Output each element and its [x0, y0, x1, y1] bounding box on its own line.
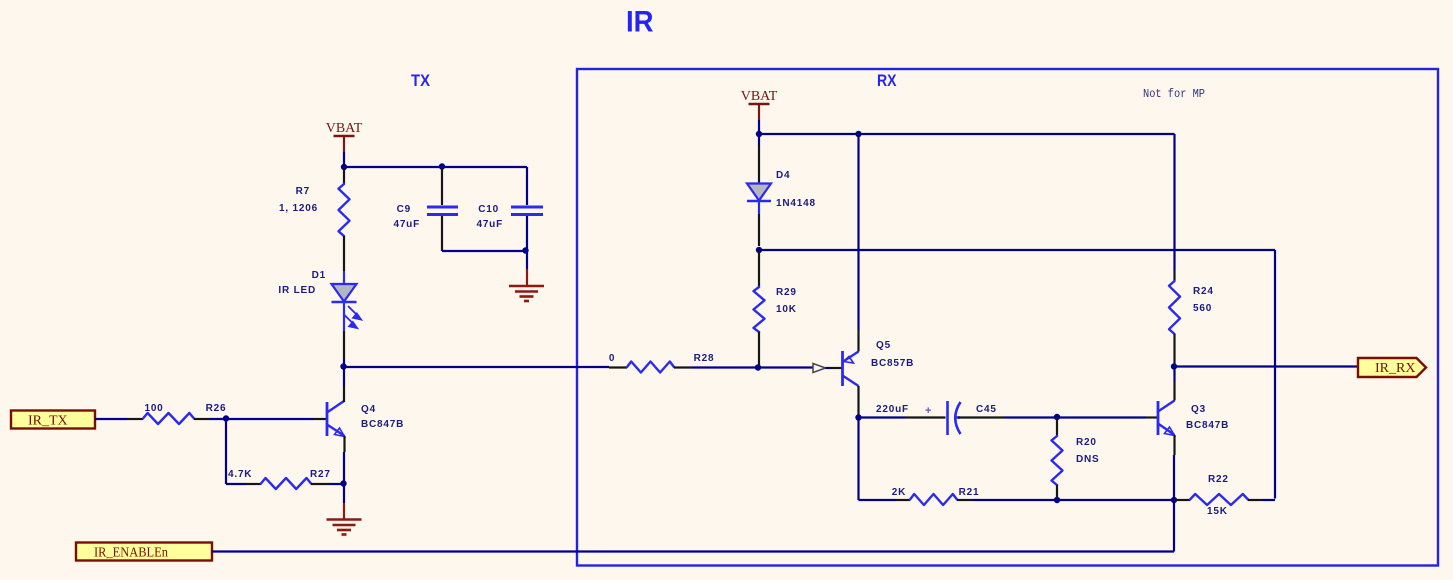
transistor Q5 collector pin [857, 386, 859, 418]
wire rail corner down to R24 [1173, 134, 1175, 270]
transistor Q3 base pin [1146, 416, 1158, 418]
svg-text:47uF: 47uF [393, 219, 420, 230]
resistor R26 left pin [127, 418, 143, 420]
svg-text:C10: C10 [478, 204, 499, 215]
svg-text:15K: 15K [1207, 506, 1228, 517]
svg-text:R21: R21 [959, 487, 980, 498]
transistor Q5 emitter pin [857, 330, 859, 352]
resistor R29 bottom pin [758, 332, 760, 368]
svg-text:+: + [925, 405, 931, 417]
wire R21 to emitter node [973, 499, 1174, 501]
transistor Q3 emitter pin [1173, 435, 1175, 455]
svg-text:10K: 10K [776, 304, 797, 315]
wire Q5 collector node down [857, 418, 859, 501]
resistor R22 [1190, 494, 1248, 505]
port IR_RX [1358, 358, 1426, 377]
transistor Q4 BC847B [327, 401, 345, 437]
junction C9 top [439, 163, 445, 169]
junction node TX_OUT [340, 363, 346, 369]
svg-text:DNS: DNS [1076, 454, 1100, 465]
svg-text:IR_TX: IR_TX [28, 414, 68, 429]
resistor R7 bottom pin [343, 236, 345, 271]
svg-text:D4: D4 [776, 170, 790, 181]
wire TX_OUT to RX [344, 366, 609, 368]
transistor Q4 base pin [313, 418, 327, 420]
resistor R27 [261, 478, 311, 489]
diode D4 1N4148 body [747, 184, 771, 202]
wire R26 to Q4 base [210, 418, 313, 420]
resistor R22 left pin [1174, 499, 1190, 501]
resistor R26 [143, 413, 194, 424]
svg-text:220uF: 220uF [876, 404, 909, 415]
junction node Q4 base / R27 [223, 415, 229, 421]
resistor R27 right pin [311, 483, 330, 485]
junction node VBAT_RX [756, 131, 762, 137]
ground (TX caps) [509, 286, 544, 301]
wire R22 to cathode rail riser [1262, 499, 1275, 501]
wire R28 to R29 node [692, 366, 758, 368]
svg-text:C9: C9 [397, 204, 411, 215]
capacitor C45 left pin [905, 416, 946, 418]
wire VBAT stub to TX rail [343, 152, 345, 167]
resistor R20 top pin [1056, 418, 1058, 437]
wire D1 to collector node [343, 331, 345, 360]
capacitor C9 [427, 207, 458, 215]
svg-text:R22: R22 [1208, 474, 1229, 485]
svg-text:R24: R24 [1193, 286, 1214, 297]
port IR_TX [11, 411, 95, 429]
capacitor C10 bottom pin [526, 216, 528, 251]
wire corner to R21 [859, 499, 897, 501]
svg-text:R7: R7 [296, 186, 310, 197]
svg-text:TX: TX [411, 71, 431, 90]
svg-text:1N4148: 1N4148 [776, 198, 816, 209]
diode D1 emission arrows [344, 306, 361, 328]
capacitor C45 polarized [948, 401, 961, 435]
wire base node down to R27 [225, 419, 227, 484]
junction node Q3 emitter / R22 [1171, 497, 1177, 503]
wire IR_ENABLEn run [212, 550, 1174, 552]
svg-text:R20: R20 [1076, 437, 1097, 448]
wire Q3 emitter down [1173, 455, 1175, 500]
wire node to Q5 base arrow [758, 366, 813, 368]
resistor R7 top pin [343, 167, 345, 184]
diode D1 cathode pin [343, 302, 345, 331]
power symbol VBAT (RX) [741, 89, 778, 120]
resistor R24 [1169, 281, 1180, 334]
svg-text:560: 560 [1193, 303, 1212, 314]
ground (Q4) [327, 520, 362, 535]
wire TX VBAT rail [344, 166, 527, 168]
wire C10 top drop [526, 167, 528, 205]
resistor R29 [754, 287, 765, 332]
diode D4 anode pin [758, 145, 760, 184]
resistor R20 [1052, 436, 1063, 485]
wire cathode rail [759, 249, 1275, 251]
resistor R27 left pin [246, 483, 261, 485]
wire VBAT stub to RX rail [758, 120, 760, 134]
resistor R24 bottom pin [1173, 334, 1175, 367]
junction node R20 top [1054, 414, 1060, 420]
diode D4 cathode pin [758, 201, 760, 214]
capacitor C9 top pin [441, 167, 443, 205]
svg-text:Q5: Q5 [876, 340, 891, 351]
diode D4 anode wire [758, 134, 760, 145]
svg-text:R28: R28 [694, 353, 715, 364]
svg-text:4.7K: 4.7K [228, 469, 252, 480]
svg-text:0: 0 [609, 353, 615, 364]
svg-text:VBAT: VBAT [326, 121, 363, 136]
junction node VBAT_TX at R7 top [341, 164, 347, 170]
svg-text:Not for MP: Not for MP [1143, 88, 1205, 101]
ground stub (Q4) [343, 503, 345, 519]
svg-text:BC847B: BC847B [1186, 420, 1229, 431]
svg-text:R26: R26 [206, 403, 227, 414]
svg-text:R27: R27 [310, 469, 331, 480]
svg-text:Q3: Q3 [1191, 404, 1206, 415]
junction C10 bottom [522, 247, 528, 253]
svg-text:1, 1206: 1, 1206 [279, 203, 318, 214]
transistor Q5 base pin [830, 367, 843, 369]
wire C9 bottom rail [442, 250, 527, 252]
svg-text:VBAT: VBAT [741, 89, 778, 104]
ground stub (TX caps) [526, 269, 528, 286]
resistor R22 right pin [1248, 499, 1262, 501]
resistor R29 top pin [758, 250, 760, 287]
transistor Q5 BC857B [843, 351, 859, 386]
transistor Q3 BC847B [1158, 401, 1175, 436]
svg-text:47uF: 47uF [476, 219, 503, 230]
junction node D4/R29/R22 [756, 247, 762, 253]
resistor R21 left pin [896, 499, 910, 501]
power symbol VBAT (TX) [326, 121, 363, 152]
transistor Q4 emitter pin [343, 436, 345, 452]
transistor Q3 collector pin [1173, 381, 1175, 401]
capacitor C45 right pin [958, 416, 1004, 418]
port IR_ENABLEn [76, 543, 212, 561]
wire C45 to R20/Q3 base [1004, 416, 1146, 418]
resistor R24 top pin [1173, 270, 1175, 281]
resistor R28 [627, 362, 674, 373]
diode D1 IR LED body [332, 284, 357, 302]
wire IR_ENABLEn riser [1173, 500, 1175, 552]
svg-text:BC857B: BC857B [871, 358, 914, 369]
wire R27 left [226, 483, 246, 485]
wire Q4 emitter to R27 node [343, 452, 345, 484]
wire emitter node to ground [343, 484, 345, 503]
junction node R29 bottom / Q5 base [755, 364, 761, 370]
junction node IR_RX [1171, 363, 1177, 369]
svg-text:IR_RX: IR_RX [1375, 361, 1415, 376]
wire cathode rail corner down [1274, 250, 1276, 499]
signal direction arrow into Q5 base [813, 364, 826, 373]
svg-text:BC847B: BC847B [361, 419, 404, 430]
wire C10 to ground [526, 251, 528, 269]
wire Q5 collector to C45 [859, 416, 906, 418]
wire D4 cathode down [758, 214, 760, 246]
svg-text:RX: RX [877, 71, 897, 90]
junction Q5 emitter at rail [855, 131, 861, 137]
resistor R21 [910, 494, 957, 505]
wire Q3 collector to IR_RX node [1173, 367, 1175, 382]
RX block border [577, 69, 1438, 566]
resistor R7 [339, 184, 350, 236]
resistor R20 bottom pin [1056, 485, 1058, 500]
svg-text:R29: R29 [776, 287, 797, 298]
transistor Q4 collector pin [343, 386, 345, 402]
svg-text:IR: IR [626, 6, 654, 39]
svg-text:IR LED: IR LED [278, 285, 316, 296]
wire Q5 emitter to rail [857, 134, 859, 330]
svg-text:C45: C45 [976, 404, 997, 415]
svg-text:2K: 2K [892, 487, 906, 498]
capacitor C9 bottom pin [441, 216, 443, 251]
wire RX VBAT rail [759, 133, 1175, 135]
svg-text:D1: D1 [312, 270, 326, 281]
junction node Q5 collector [855, 414, 861, 420]
wire R27 to emitter node [330, 483, 344, 485]
svg-text:Q4: Q4 [361, 404, 376, 415]
resistor R28 right pin [674, 366, 692, 368]
resistor R28 left pin [609, 366, 627, 368]
wire arrow to base pin [826, 367, 831, 369]
svg-text:IR_ENABLEn: IR_ENABLEn [94, 546, 168, 561]
junction node Q4 emitter [340, 480, 346, 486]
wire node to Q4 collector [343, 360, 345, 386]
diode D1 anode pin [343, 271, 345, 285]
wire IR_RX node to port [1174, 365, 1358, 367]
wire IR_TX port to R26 [95, 418, 127, 420]
capacitor C10 [511, 207, 543, 215]
resistor R21 right pin [957, 499, 973, 501]
junction node R20 bottom [1054, 497, 1060, 503]
resistor R26 right pin [194, 418, 210, 420]
